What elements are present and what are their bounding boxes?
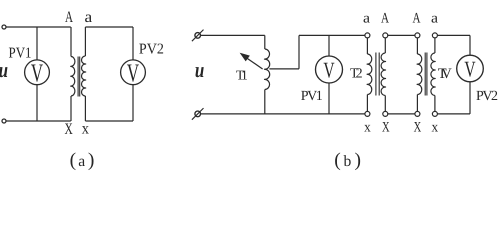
transformer T2 terminal x (bottom-left) (365, 111, 370, 116)
wire: PV2 bottom lead (b) (469, 82, 471, 114)
svg-text:V: V (323, 58, 334, 83)
wire: PV2 top lead (b) (469, 35, 471, 55)
wire: bottom rail to PV2 (b) (437, 113, 470, 115)
transformer T2 terminal X (bottom-right) (383, 111, 388, 116)
transformer TV secondary coil (431, 53, 435, 96)
terminal bottom-left (a) (2, 119, 6, 123)
terminal top-left slash (b) (192, 30, 204, 42)
coil cusp knots (70, 59, 436, 89)
transformer T2 secondary coil (381, 53, 385, 96)
svg-text:T2: T2 (350, 67, 363, 82)
svg-text:(a): (a) (70, 150, 95, 171)
wire: PV1 top lead (b) (328, 35, 330, 56)
svg-text:PV1: PV1 (9, 46, 32, 62)
svg-text:V: V (127, 59, 139, 88)
wire: tap from T1 (269, 68, 299, 70)
svg-text:x: x (82, 121, 89, 138)
terminal bottom-left (b) (195, 111, 201, 117)
transformer TV primary coil (417, 54, 422, 95)
svg-text:A: A (65, 9, 73, 26)
wire: top rail middle (b) (299, 34, 365, 36)
svg-text:a: a (85, 9, 93, 26)
wire: PV1 bottom lead (36, 85, 38, 121)
transformer (a) secondary winding lead top (84, 27, 86, 56)
svg-text:u: u (0, 58, 8, 82)
svg-text:TV: TV (438, 66, 452, 82)
svg-text:A: A (381, 11, 389, 27)
wire: bottom bridge X-X (387, 113, 415, 115)
transformer TV core (425, 53, 427, 96)
transformer T2 primary coil (367, 54, 372, 95)
wire: PV2 top lead (a) (132, 27, 134, 60)
TV primary lead top (416, 38, 418, 54)
transformer (a) primary winding lead bottom (70, 96, 72, 121)
transformer TV terminal a (top-right) (432, 33, 437, 38)
terminal bottom-left slash (b) (192, 108, 204, 120)
wire: top rail right (a) (85, 26, 133, 28)
svg-text:u: u (195, 58, 204, 82)
T1 wiper arrow (246, 57, 263, 69)
TV secondary lead top (434, 38, 436, 53)
transformer T2 core (376, 53, 379, 96)
svg-text:PV2: PV2 (476, 89, 498, 104)
wire: bottom rail (b) (201, 113, 365, 115)
TV secondary lead bottom (434, 96, 436, 112)
svg-text:V: V (31, 59, 43, 88)
svg-text:a: a (363, 11, 371, 27)
autotransformer T1 coil (265, 49, 270, 90)
svg-text:X: X (414, 119, 422, 135)
transformer (a) primary winding lead top (70, 27, 72, 57)
svg-text:T1: T1 (236, 67, 248, 82)
svg-text:x: x (432, 119, 439, 135)
svg-text:V: V (464, 57, 475, 82)
T2 secondary lead top (384, 38, 386, 53)
svg-text:X: X (65, 121, 74, 138)
wire: top bridge A-A (387, 34, 415, 36)
wire: bottom rail right (a) (85, 120, 133, 122)
transformer TV terminal A (top-left) (415, 33, 420, 38)
voltmeter PV2 (b) (457, 55, 484, 82)
transformer (a) secondary winding lead bottom (84, 96, 86, 121)
wire: bottom rail left (a) (6, 120, 71, 122)
svg-text:x: x (364, 119, 371, 135)
terminal top-left (a) (2, 25, 6, 29)
wire: tap riser (298, 35, 300, 68)
transformer (a) secondary winding coil (81, 56, 85, 96)
svg-text:X: X (382, 119, 390, 135)
transformer TV terminal x (bottom-right) (432, 111, 437, 116)
wire: top rail left (a) (6, 26, 71, 28)
transformer TV terminal X (bottom-left) (415, 111, 420, 116)
svg-text:(b): (b) (334, 150, 361, 171)
wire: PV1 bottom lead (b) (328, 83, 330, 114)
svg-text:a: a (431, 11, 439, 27)
transformer (a) primary winding coil (71, 57, 75, 97)
svg-text:A: A (413, 11, 421, 27)
svg-text:PV1: PV1 (301, 89, 323, 104)
terminal top-left (b) (195, 33, 201, 39)
T2 primary lead bottom (366, 95, 368, 112)
voltmeter PV2 (a) (121, 60, 146, 85)
wire: top rail from terminal to T1 (201, 34, 265, 36)
transformer T2 terminal A (top-right) (383, 33, 388, 38)
wire: T1 bottom lead (264, 90, 266, 114)
T2 primary lead top (366, 38, 368, 54)
transformer T2 terminal a (top-left) (365, 33, 370, 38)
TV primary lead bottom (416, 95, 418, 112)
svg-text:PV2: PV2 (139, 41, 164, 57)
wire: top rail to PV2 (b) (437, 34, 470, 36)
T2 secondary lead bottom (384, 96, 386, 112)
voltmeter PV1 (b) (316, 56, 343, 83)
wire: PV2 bottom lead (a) (132, 85, 134, 121)
transformer (a) core (78, 57, 80, 97)
voltmeter PV1 (a) (25, 60, 50, 85)
wire: T1 top lead (264, 35, 266, 49)
wire: PV1 top lead (36, 27, 38, 60)
